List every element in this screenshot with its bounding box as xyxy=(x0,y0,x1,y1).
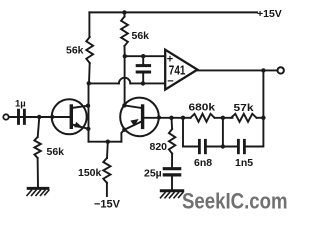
svg-text:56k: 56k xyxy=(66,45,84,57)
svg-text:+: + xyxy=(167,54,173,66)
svg-text:−15V: −15V xyxy=(94,199,121,211)
svg-text:+15V: +15V xyxy=(257,8,282,20)
svg-text:820: 820 xyxy=(150,141,168,153)
svg-text:6n8: 6n8 xyxy=(194,157,212,169)
svg-text:25µ: 25µ xyxy=(144,168,162,180)
svg-text:56k: 56k xyxy=(132,30,150,42)
svg-text:−: − xyxy=(167,76,173,88)
svg-text:680k: 680k xyxy=(189,102,216,114)
svg-text:SeekIC.com: SeekIC.com xyxy=(182,189,288,214)
svg-text:57k: 57k xyxy=(234,102,254,114)
svg-text:1n5: 1n5 xyxy=(235,157,253,169)
svg-text:150k: 150k xyxy=(78,167,102,179)
svg-text:56k: 56k xyxy=(47,146,65,158)
svg-text:1µ: 1µ xyxy=(15,99,26,110)
